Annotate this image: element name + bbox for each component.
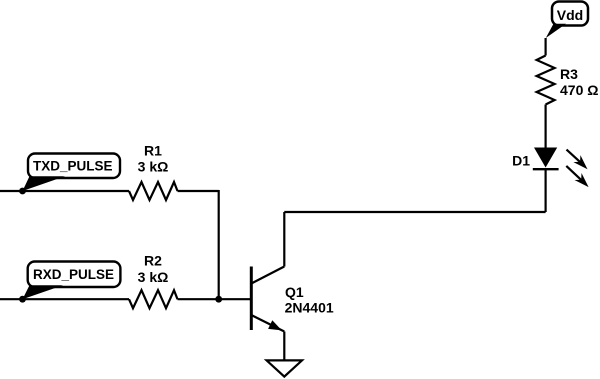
svg-text:R2: R2 <box>144 253 162 269</box>
svg-text:D1: D1 <box>512 153 530 169</box>
terminal dot RXD_PULSE <box>19 296 26 303</box>
node RXD_PULSE <box>23 262 121 300</box>
svg-text:Vdd: Vdd <box>557 7 583 23</box>
svg-text:R1: R1 <box>144 143 162 159</box>
node TXD_PULSE <box>23 154 121 192</box>
resistor R3 <box>537 56 555 105</box>
wire R2 to base <box>178 298 252 300</box>
transistor Q1 <box>251 267 284 332</box>
junction node A <box>215 296 222 303</box>
wire collector to LED <box>284 211 545 213</box>
resistor R1 <box>129 182 178 200</box>
wire down to base node <box>218 190 220 299</box>
svg-text:3 kΩ: 3 kΩ <box>138 159 169 175</box>
svg-text:R3: R3 <box>560 66 578 82</box>
terminal dot TXD_PULSE <box>19 188 26 195</box>
wire collector up <box>283 212 285 267</box>
wire Vdd to R3 <box>544 38 546 56</box>
wire LED to collector wire <box>544 169 546 212</box>
wire emitter down <box>283 332 285 361</box>
diode D1 LED <box>533 148 559 170</box>
wire RXD input <box>0 298 129 300</box>
svg-text:RXD_PULSE: RXD_PULSE <box>33 267 114 282</box>
node Vdd <box>546 2 588 39</box>
svg-text:3 kΩ: 3 kΩ <box>138 269 169 285</box>
resistor R2 <box>129 290 178 308</box>
LED light arrow 2 <box>566 166 588 187</box>
svg-text:Q1: Q1 <box>285 284 304 300</box>
wire TXD input <box>0 190 129 192</box>
LED light arrow 1 <box>567 150 588 170</box>
svg-text:2N4401: 2N4401 <box>285 300 334 316</box>
svg-text:470 Ω: 470 Ω <box>560 82 598 98</box>
ground <box>267 360 302 376</box>
wire R3 to LED <box>544 105 546 149</box>
wire R1 to corner <box>178 190 219 192</box>
svg-text:TXD_PULSE: TXD_PULSE <box>33 158 113 173</box>
